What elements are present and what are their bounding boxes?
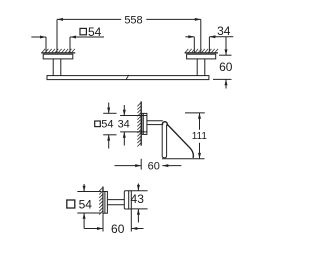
dim sq54 top: right arrow xyxy=(70,36,76,39)
dim 34 top: right arrow xyxy=(209,35,215,38)
right mount plate xyxy=(187,54,216,59)
dim 60 mid: wall extension line xyxy=(140,159,142,170)
dim 34 mid: bottom extension to plate xyxy=(120,131,147,133)
dim 43: bottom arrow line xyxy=(137,209,139,223)
dim sq54 bottom: top extension xyxy=(77,191,101,193)
dim 34 mid: top arrow head xyxy=(123,110,126,116)
svg-text:34: 34 xyxy=(217,24,231,38)
dim sq54 mid: top arrow head xyxy=(107,108,110,114)
hook plate inner vertical xyxy=(104,192,106,214)
holder pivot circle xyxy=(162,122,167,127)
middle wall hatch xyxy=(137,103,141,147)
dim 34 mid: bottom arrow head xyxy=(123,132,126,138)
hook right extension to 60 dim xyxy=(130,209,132,232)
dim 34 top: left extension xyxy=(193,37,195,53)
dim sq54 bottom: top arrow line xyxy=(83,184,85,192)
dim sq54 bottom: top arrow head xyxy=(83,186,86,192)
dim 111: bottom extension xyxy=(162,158,205,160)
svg-text:558: 558 xyxy=(124,14,142,26)
left wall hatch xyxy=(42,49,75,53)
left post left edge xyxy=(52,59,54,76)
holder arm top edge xyxy=(147,120,163,122)
dim 43: top arrow head xyxy=(137,185,140,191)
dim 34 top: left tail xyxy=(185,36,194,38)
bottom wall line xyxy=(102,187,104,214)
dim 60 mid: right arrow head xyxy=(162,164,168,167)
holder vertical bar xyxy=(162,125,166,158)
svg-text:54: 54 xyxy=(88,25,102,39)
dim 111: upper arrow head xyxy=(198,113,201,119)
dim 60 top-right: lower extension line xyxy=(213,78,232,80)
dim sq54 bottom: bottom arrow line xyxy=(83,213,85,229)
dim 34 mid: top arrow line xyxy=(123,105,125,116)
dim sq54 bottom: bottom arrow head xyxy=(83,213,86,219)
middle wall line xyxy=(140,101,142,145)
dim 558 right arrow xyxy=(195,18,201,21)
dim 558 right extension line xyxy=(200,19,202,52)
hook arm top edge xyxy=(107,199,124,201)
right post right edge xyxy=(204,59,206,76)
dim sq54 mid: square symbol xyxy=(95,121,101,127)
dim 111: lower arrow head xyxy=(198,153,201,159)
svg-text:54: 54 xyxy=(79,197,93,211)
hook end inner vertical xyxy=(128,191,130,209)
dim 43: top arrow line xyxy=(137,184,139,191)
dim sq54 top: right tail under text xyxy=(70,36,104,38)
dim 43: bottom extension xyxy=(131,208,148,210)
dim sq54 top: left arrow xyxy=(40,36,46,39)
dim 558 line left segment xyxy=(57,18,121,20)
dim 558 line right segment xyxy=(146,18,201,20)
dim 60 top-right: lower arrow head xyxy=(225,79,228,85)
left wall surface line xyxy=(41,52,75,54)
dim sq54 top: square symbol xyxy=(80,28,86,34)
towel bar rail xyxy=(47,76,209,80)
dim 111: lower line segment xyxy=(199,143,201,159)
dim 111: upper line segment xyxy=(199,113,201,130)
svg-text:34: 34 xyxy=(118,119,130,131)
svg-text:54: 54 xyxy=(101,119,113,131)
bottom wall extension to 60 dim xyxy=(102,214,104,232)
dim 60 bottom: right tail xyxy=(131,228,143,230)
dim 34 top: right tail xyxy=(209,36,233,38)
dim 34 mid: bottom arrow line xyxy=(123,132,125,146)
hook mount plate xyxy=(103,192,107,214)
right wall surface line xyxy=(185,52,218,54)
dim sq54 top: left tail xyxy=(31,36,46,38)
dim 60 mid: left arrow head xyxy=(135,164,141,167)
rail break slash xyxy=(126,75,129,80)
left post right edge xyxy=(60,59,62,76)
svg-text:111: 111 xyxy=(192,131,208,142)
middle plate inner vertical xyxy=(142,113,144,134)
dim sq54 bottom: bottom extension xyxy=(77,212,101,214)
dim 558 left arrow xyxy=(57,18,63,21)
dim 111: top extension xyxy=(185,112,205,114)
dim 43: top extension xyxy=(131,190,148,192)
dim 34 top: right extension xyxy=(208,37,210,54)
dim 60 top-right: upper arrow line xyxy=(225,37,227,55)
dim 60 bottom: right arrow head xyxy=(131,227,137,230)
dim sq54 mid: top arrow line xyxy=(108,103,110,114)
dim 60 bottom: left tail xyxy=(84,228,103,230)
dim sq54 mid: bottom extension xyxy=(103,134,116,136)
dim sq54 top: right extension xyxy=(69,37,71,53)
dim 60 top-right: upper extension line xyxy=(219,54,232,56)
dim 60 mid: right tail xyxy=(162,165,181,167)
svg-text:60: 60 xyxy=(219,60,233,74)
right wall hatch xyxy=(185,49,218,53)
dim sq54 mid: bottom arrow head xyxy=(107,135,110,141)
dim 34 top: left arrow xyxy=(188,35,194,38)
dim sq54 mid: bottom arrow line xyxy=(108,135,110,149)
dim 43: bottom arrow head xyxy=(137,209,140,215)
dim sq54 top: left extension xyxy=(45,37,47,53)
svg-text:43: 43 xyxy=(131,192,145,206)
svg-text:60: 60 xyxy=(111,222,125,236)
dim sq54 bottom: square symbol xyxy=(67,200,75,208)
holder arm bottom edge xyxy=(147,124,162,126)
hook end piece xyxy=(124,191,131,209)
dim 34 mid: top extension to plate xyxy=(120,115,147,117)
left mount plate xyxy=(43,54,73,59)
dim sq54 mid: top extension xyxy=(103,112,116,114)
dim 60 top-right: upper arrow head xyxy=(225,49,228,55)
hook arm bottom edge xyxy=(107,204,124,206)
dim 60 bottom: left arrow head xyxy=(97,227,103,230)
dim 60 top-right: lower arrow line xyxy=(225,79,227,88)
right post left edge xyxy=(196,59,198,76)
svg-text:60: 60 xyxy=(148,160,160,172)
bottom wall hatch xyxy=(99,188,103,215)
middle mount plate xyxy=(142,113,147,134)
holder flap blade xyxy=(167,124,193,157)
dim 558 left extension line xyxy=(56,19,58,52)
dim 60 mid: left tail xyxy=(115,165,142,167)
